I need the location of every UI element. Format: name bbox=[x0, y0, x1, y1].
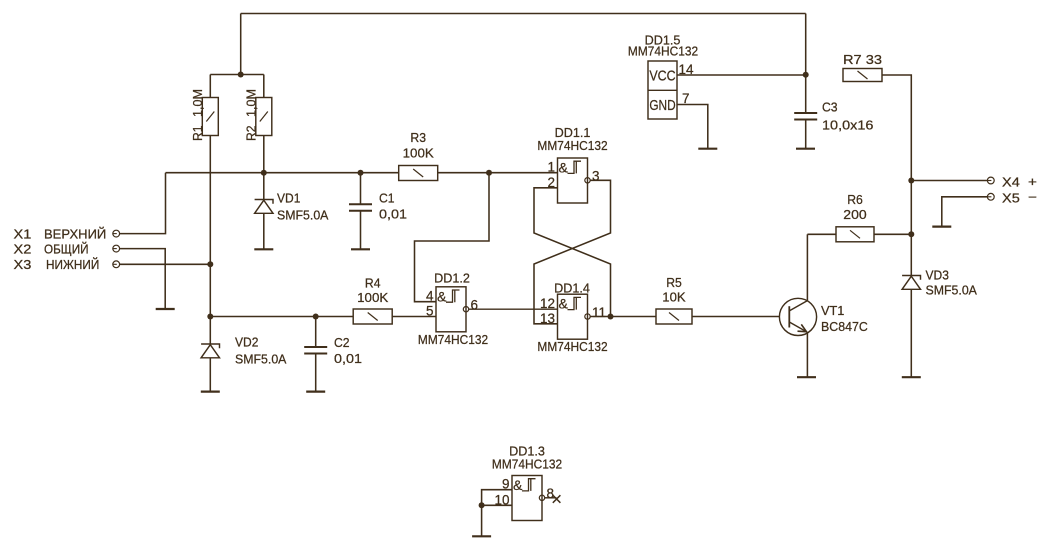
junction DD1.3 inputs bbox=[479, 502, 485, 508]
wire R2 top stub bbox=[263, 75, 265, 98]
resistor R7 bbox=[843, 52, 882, 82]
wire upper rail left bbox=[166, 172, 400, 174]
ground C1 bbox=[351, 248, 370, 250]
svg-text:X3: X3 bbox=[14, 257, 32, 272]
svg-text:X4: X4 bbox=[1002, 174, 1020, 189]
svg-text:R4: R4 bbox=[365, 276, 381, 291]
svg-text:&: & bbox=[437, 288, 447, 304]
resistor R5 bbox=[656, 275, 692, 324]
resistor R2 bbox=[243, 89, 271, 141]
svg-text:VT1: VT1 bbox=[821, 303, 844, 318]
op-amp DD1.4 (NAND gate) bbox=[537, 281, 607, 354]
terminal X1 bbox=[113, 230, 120, 237]
wire VD3 bottom bbox=[910, 289, 912, 377]
svg-text:R3: R3 bbox=[410, 130, 426, 145]
svg-text:C3: C3 bbox=[822, 100, 838, 115]
svg-text:ОБЩИЙ: ОБЩИЙ bbox=[44, 241, 89, 256]
ground C2 bbox=[306, 391, 325, 393]
svg-text:MM74HC132: MM74HC132 bbox=[537, 339, 607, 354]
junction R3 output bbox=[486, 170, 492, 176]
junction R6 output bbox=[908, 231, 914, 237]
svg-text:SMF5.0A: SMF5.0A bbox=[926, 283, 978, 298]
junction C1 on upper rail bbox=[358, 170, 364, 176]
svg-text:4: 4 bbox=[426, 289, 434, 304]
svg-text:X2: X2 bbox=[14, 241, 32, 256]
wire DD1.3 pin 9 bbox=[482, 490, 512, 537]
svg-text:BC847C: BC847C bbox=[821, 319, 868, 334]
wire R7 to output vertical bbox=[882, 75, 911, 181]
wire VT1 collector to R6 bbox=[807, 233, 836, 235]
svg-text:MM74HC132: MM74HC132 bbox=[537, 138, 607, 153]
wire R3 junction to DD1.2 pin 4 bbox=[415, 173, 490, 302]
svg-text:1: 1 bbox=[547, 160, 555, 175]
wire C3 top bbox=[805, 75, 807, 113]
wire VT1 collector bbox=[806, 234, 808, 300]
svg-text:X5: X5 bbox=[1002, 191, 1020, 206]
wire VT1 emitter bbox=[806, 332, 808, 377]
ground C3 bbox=[796, 148, 815, 150]
terminal X4 bbox=[987, 177, 994, 184]
ground VD1 bbox=[254, 248, 273, 250]
op-amp DD1.1 (NAND gate) bbox=[537, 125, 607, 203]
svg-text:12: 12 bbox=[540, 296, 555, 311]
wire R6 to output rail bbox=[874, 233, 911, 235]
ground X2 bbox=[156, 308, 175, 310]
wire VD2 top bbox=[209, 317, 211, 345]
svg-text:GND: GND bbox=[649, 97, 675, 114]
terminal X3 bbox=[113, 261, 120, 268]
wire output vertical mid bbox=[910, 181, 912, 235]
junction C3 VCC bbox=[803, 72, 809, 78]
wire X5 to ground bbox=[942, 197, 988, 227]
ground VD3 bbox=[902, 376, 921, 378]
wire top rail left drop bbox=[240, 14, 242, 75]
wire DD1.1 pin2 feedback bbox=[534, 188, 611, 317]
svg-text:R7 33: R7 33 bbox=[843, 52, 882, 67]
svg-text:0,01: 0,01 bbox=[379, 207, 407, 222]
wire DD1.4 output to R5 bbox=[590, 316, 656, 318]
svg-text:3: 3 bbox=[592, 169, 600, 184]
wire C2 bottom bbox=[315, 354, 317, 392]
wire C3 bottom bbox=[805, 120, 807, 149]
wire VD1 top bbox=[263, 173, 265, 200]
svg-text:100K: 100K bbox=[357, 290, 389, 305]
svg-text:&: & bbox=[513, 477, 523, 493]
ground VT1 emitter bbox=[797, 376, 816, 378]
wire R5 to VT1 base bbox=[692, 316, 779, 318]
wire R1 bottom to lower rail bbox=[209, 136, 211, 317]
svg-text:C2: C2 bbox=[334, 335, 350, 350]
wire X2 to ground bbox=[120, 249, 166, 309]
wire VD2 bottom bbox=[209, 358, 211, 392]
svg-text:MM74HC132: MM74HC132 bbox=[628, 43, 698, 58]
svg-text:&: & bbox=[559, 160, 569, 176]
ground X5 bbox=[932, 226, 951, 228]
terminal X2 bbox=[113, 245, 120, 252]
wire R1 top stub bbox=[209, 75, 211, 98]
svg-text:ВЕРХНИЙ: ВЕРХНИЙ bbox=[44, 226, 106, 241]
ground DD1.5 bbox=[698, 148, 717, 150]
svg-text:100K: 100K bbox=[403, 145, 435, 160]
capacitor C1 bbox=[349, 191, 407, 222]
junction DD1.4 output bbox=[608, 314, 614, 320]
svg-text:VCC: VCC bbox=[649, 67, 675, 84]
op-amp DD1.5 (power unit MM74HC132) bbox=[628, 32, 698, 119]
svg-text:VD1: VD1 bbox=[277, 191, 300, 206]
svg-text:DD1.4: DD1.4 bbox=[554, 281, 590, 296]
wire R2 bottom to upper rail bbox=[263, 136, 265, 173]
junction C2 on lower rail bbox=[313, 314, 319, 320]
svg-text:200: 200 bbox=[843, 207, 866, 222]
svg-text:VD2: VD2 bbox=[235, 334, 258, 349]
transistor VT1 BC847C bbox=[779, 298, 867, 335]
wire C1 top bbox=[360, 173, 362, 205]
resistor R3 bbox=[399, 130, 438, 180]
svg-text:MM74HC132: MM74HC132 bbox=[492, 457, 562, 472]
resistor R6 bbox=[836, 192, 874, 242]
junction X3 bbox=[207, 261, 213, 267]
wire X4 bbox=[911, 180, 987, 182]
wire X3 to R1 net bbox=[120, 263, 211, 265]
resistor R1 bbox=[190, 89, 219, 141]
svg-text:R2: R2 bbox=[243, 125, 258, 141]
wire X1 to upper rail bbox=[120, 173, 166, 234]
junction top bridge bbox=[238, 72, 244, 78]
svg-text:1,0M: 1,0M bbox=[190, 89, 205, 117]
wire DD1.5 VCC pin 14 bbox=[677, 74, 806, 76]
svg-text:R5: R5 bbox=[666, 275, 682, 290]
diode VD1 bbox=[255, 191, 329, 223]
wire upper rail right of R3 bbox=[438, 172, 558, 174]
wire top rail right drop bbox=[805, 14, 807, 75]
svg-text:VD3: VD3 bbox=[926, 268, 949, 283]
svg-text:+: + bbox=[1028, 174, 1037, 189]
svg-text:1,0M: 1,0M bbox=[243, 89, 258, 117]
svg-text:НИЖНИЙ: НИЖНИЙ bbox=[46, 257, 99, 272]
svg-text:&: & bbox=[559, 296, 569, 312]
resistor R4 bbox=[353, 276, 392, 324]
junction VD1 on upper rail bbox=[261, 170, 267, 176]
capacitor C3 bbox=[794, 100, 873, 133]
capacitor C2 bbox=[304, 335, 362, 366]
svg-text:C1: C1 bbox=[379, 191, 395, 206]
svg-text:5: 5 bbox=[426, 304, 434, 319]
wire C1 bottom bbox=[360, 211, 362, 250]
op-amp DD1.3 (spare NAND gate) bbox=[492, 443, 562, 520]
junction VD2 on lower rail bbox=[207, 314, 213, 320]
svg-text:SMF5.0A: SMF5.0A bbox=[277, 208, 329, 223]
svg-text:R6: R6 bbox=[847, 192, 863, 207]
wire C2 top bbox=[315, 317, 317, 348]
wire DD1.1 output feedback to DD1.4 pin13 bbox=[534, 180, 611, 323]
wire output vertical to VD3 bbox=[910, 234, 912, 275]
svg-text:−: − bbox=[1028, 189, 1037, 204]
svg-text:X1: X1 bbox=[14, 226, 32, 241]
wire DD1.3 pin 10 bbox=[482, 504, 512, 506]
svg-text:8: 8 bbox=[547, 486, 555, 501]
svg-text:SMF5.0A: SMF5.0A bbox=[235, 352, 287, 367]
no-connect DD1.3 output bbox=[545, 495, 561, 503]
svg-text:0,01: 0,01 bbox=[334, 351, 362, 366]
wire top VCC rail bbox=[241, 13, 806, 15]
wire VD1 bottom bbox=[263, 213, 265, 249]
wire DD1.5 GND pin 7 bbox=[677, 105, 708, 149]
junction X4 bbox=[908, 178, 914, 184]
diode VD2 bbox=[201, 334, 287, 366]
svg-text:R1: R1 bbox=[190, 125, 205, 141]
svg-text:10K: 10K bbox=[662, 290, 686, 305]
terminal X5 bbox=[987, 193, 994, 200]
ground DD1.3 bbox=[472, 535, 491, 537]
op-amp DD1.2 (NAND gate) bbox=[418, 271, 488, 347]
svg-text:10,0x16: 10,0x16 bbox=[822, 118, 873, 133]
wire DD1.2 output to DD1.4 pin 12 bbox=[469, 308, 558, 310]
wire R1-R2 top bridge bbox=[210, 74, 263, 76]
wire lower rail left bbox=[210, 316, 353, 318]
ground VD2 bbox=[201, 391, 220, 393]
svg-text:MM74HC132: MM74HC132 bbox=[418, 332, 488, 347]
svg-text:DD1.2: DD1.2 bbox=[434, 271, 470, 286]
svg-text:11: 11 bbox=[592, 305, 606, 320]
svg-text:6: 6 bbox=[471, 298, 479, 313]
wire lower rail R4 to DD1.2 bbox=[393, 316, 437, 318]
diode VD3 bbox=[902, 268, 977, 298]
